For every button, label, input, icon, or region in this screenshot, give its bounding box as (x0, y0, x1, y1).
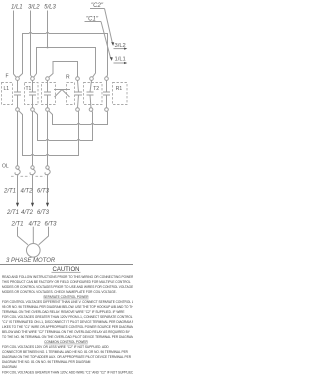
arrowhead C2 (111, 42, 114, 46)
svg-text:DIAGRAM THE NO. 81 ON NO. 96 T: DIAGRAM THE NO. 81 ON NO. 96 TERMINAL PE… (2, 360, 91, 364)
svg-text:95 OR NO. 96 TERMINAL PER DIAG: 95 OR NO. 96 TERMINAL PER DIAGRAM BELOW.… (2, 305, 133, 309)
terminal circle R3 top (105, 77, 109, 81)
svg-text:"C1" IS TERMINATED ON L1, DISC: "C1" IS TERMINATED ON L1, DISCONNECT IT … (2, 320, 133, 324)
motor lead 2 (32, 227, 34, 244)
svg-text:1/L1: 1/L1 (115, 57, 126, 63)
wire H1 F3-R3 outputs (49, 111, 108, 125)
svg-text:T2: T2 (93, 86, 99, 92)
wire F3 out straight to OL3 (47, 111, 49, 166)
contact R pole2 (87, 80, 94, 107)
svg-text:MODES OR CONTROL VOLTAGES PRIO: MODES OR CONTROL VOLTAGES PRIOR TO USE A… (2, 285, 133, 289)
junction L3-C (47, 47, 49, 49)
svg-text:COMMON CONTROL POWER: COMMON CONTROL POWER (44, 340, 88, 344)
contact F pole3 (44, 80, 51, 107)
dashed box L1 (2, 83, 13, 105)
dashed box F3 (42, 83, 56, 105)
terminal circle F3 top (46, 77, 50, 81)
svg-text:DIAGRAM ON THE TOP ADDER AUX.: DIAGRAM ON THE TOP ADDER AUX. OR APPROPR… (2, 355, 132, 359)
dashed box R1 (113, 83, 128, 105)
arrow right under 3/L2 (114, 48, 126, 50)
svg-text:1/L1: 1/L1 (11, 5, 23, 11)
wire T2 down arrow (31, 203, 34, 207)
terminal circle F1 bottom (16, 108, 20, 112)
svg-text:6/T3: 6/T3 (37, 189, 50, 195)
svg-text:FOR COIL VOLTAGES GREATER THAN: FOR COIL VOLTAGES GREATER THAN 120V FROM… (2, 315, 133, 319)
svg-text:TO THE NO. 96 TERMINAL ON THE: TO THE NO. 96 TERMINAL ON THE OVERLOAD P… (2, 335, 133, 339)
contact F pole2 (29, 80, 36, 107)
dashed box R-a (67, 83, 75, 105)
contact R pole1 (75, 80, 82, 107)
OL heater 1 (16, 166, 19, 169)
wire C cross F2-R2 (34, 48, 96, 77)
terminal circle F2 bottom (31, 108, 35, 112)
svg-text:2/T1: 2/T1 (6, 210, 19, 216)
svg-text:FOR COIL VOLTAGES GREATER THAN: FOR COIL VOLTAGES GREATER THAN 120V, ADD… (2, 370, 133, 374)
svg-text:L1: L1 (4, 86, 10, 92)
svg-text:6/T3: 6/T3 (45, 222, 58, 228)
svg-text:6/T3: 6/T3 (37, 210, 50, 216)
arrow right under 1/L1 (114, 62, 126, 64)
svg-text:R: R (66, 75, 70, 81)
svg-text:5/L3: 5/L3 (44, 5, 56, 11)
wire H2 F2-R2 outputs (34, 111, 93, 141)
terminal circle R1 bottom (76, 108, 80, 112)
wire C1 diagonal (101, 22, 111, 59)
contact F pole1 (14, 80, 21, 107)
svg-text:DIAGRAM: DIAGRAM (2, 365, 17, 369)
svg-text:TERMINAL ON THE OVERLOAD RELAY: TERMINAL ON THE OVERLOAD RELAY. REMOVE W… (2, 310, 125, 314)
OL heater 3 (46, 166, 49, 169)
svg-text:OL: OL (2, 164, 9, 170)
svg-text:CONNECTOR BETWEEN NO. 1 TERMIN: CONNECTOR BETWEEN NO. 1 TERMINAL AND HE … (2, 350, 129, 354)
wire F2 out straight to OL2 (32, 111, 34, 166)
svg-text:3 PHASE MOTOR: 3 PHASE MOTOR (6, 258, 56, 264)
wire D L3 to R1 (49, 62, 78, 78)
mechanical interlock (54, 90, 70, 98)
terminal circle F2 top (31, 77, 35, 81)
svg-text:FOR COIL VOLTAGES 120V OR LESS: FOR COIL VOLTAGES 120V OR LESS WIRE "C2"… (2, 345, 109, 349)
svg-text:2/T1: 2/T1 (3, 189, 16, 195)
wire L1 incoming (14, 11, 17, 78)
terminal circle F3 bottom (46, 108, 50, 112)
svg-text:F: F (6, 73, 9, 79)
contact R pole3 (103, 80, 110, 107)
svg-text:THIS PRODUCT CAN BE FACTORY OR: THIS PRODUCT CAN BE FACTORY OR FIELD CON… (2, 280, 131, 284)
terminal circle R2 top (90, 77, 94, 81)
dashed box T2 (84, 83, 103, 105)
wire L3 incoming (47, 11, 49, 48)
wire A cross F1-R3 (19, 32, 108, 77)
svg-text:SEPARATE CONTROL POWER: SEPARATE CONTROL POWER (43, 295, 89, 299)
motor circle (27, 244, 41, 258)
svg-text:T1: T1 (26, 86, 32, 92)
separator rule (0, 264, 133, 266)
wire L2 incoming (31, 11, 32, 78)
wire F1 out straight to OL1 (17, 111, 19, 166)
svg-text:R1: R1 (116, 86, 123, 92)
terminal circle R3 bottom (105, 108, 109, 112)
terminal circle R2 bottom (89, 108, 93, 112)
terminal circle R1 top (76, 77, 80, 81)
wire C2 diagonal (105, 9, 113, 45)
svg-text:READ AND FOLLOW INSTRUCTIONS P: READ AND FOLLOW INSTRUCTIONS PRIOR TO TH… (2, 275, 133, 279)
motor lead 1 (18, 227, 28, 245)
svg-text:3/L2: 3/L2 (28, 5, 40, 11)
svg-text:MODES OR CONTROL VOLTAGES. CHE: MODES OR CONTROL VOLTAGES. CHECK NAMEPLA… (2, 290, 117, 294)
arrowhead C1 (110, 57, 113, 61)
wire H3 F1-R1 outputs (19, 111, 79, 156)
svg-text:4/T2: 4/T2 (29, 222, 42, 228)
OL heater 2 (31, 166, 34, 169)
motor lead 3 (39, 227, 49, 245)
dashed box T1 (25, 83, 39, 105)
terminal circle F1 top (16, 77, 20, 81)
wire T1 down arrow (16, 203, 19, 207)
svg-text:LIKES TO THE "C1" WIRE OR APPR: LIKES TO THE "C1" WIRE OR APPROPRIATE CO… (2, 325, 133, 329)
svg-text:4/T2: 4/T2 (21, 189, 34, 195)
svg-text:BELOW AND THE WIRE "C2" TERMIN: BELOW AND THE WIRE "C2" TERMINAL ON THE … (2, 330, 131, 334)
svg-text:4/T2: 4/T2 (21, 210, 34, 216)
wire T3 down arrow (46, 203, 49, 207)
OL trip bar dashes (11, 175, 45, 177)
svg-text:FOR CONTROL VOLTAGES DIFFERENT: FOR CONTROL VOLTAGES DIFFERENT THAN LINE… (2, 300, 133, 304)
